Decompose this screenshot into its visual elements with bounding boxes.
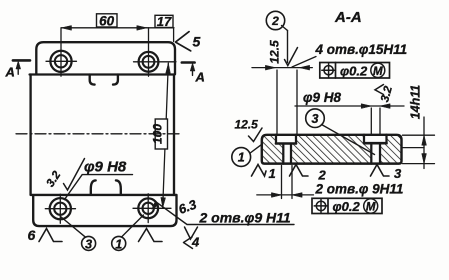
hole bottom-left xyxy=(50,198,71,219)
hole bottom-left crosshair xyxy=(45,194,75,223)
bottom slot right wall xyxy=(116,180,121,194)
svg-text:2: 2 xyxy=(271,14,279,28)
body top edge xyxy=(30,73,174,75)
svg-text:1: 1 xyxy=(238,151,245,165)
balloon 1 right view xyxy=(232,148,251,167)
svg-text:3: 3 xyxy=(394,166,402,181)
dimension 17 xyxy=(155,15,173,27)
section bar outline xyxy=(262,135,402,164)
section marker A left xyxy=(13,59,30,62)
bottom roughness checks right view xyxy=(252,165,267,177)
leader 2 otv phi9 H11 xyxy=(155,201,294,224)
mid extension line xyxy=(402,147,424,149)
dimension line phi15 xyxy=(252,67,312,69)
dimension 100 xyxy=(155,119,167,149)
svg-text:φ0.2: φ0.2 xyxy=(333,199,361,214)
svg-text:12.5: 12.5 xyxy=(268,40,282,64)
svg-text:6.3: 6.3 xyxy=(176,196,199,217)
top ear block xyxy=(36,42,175,74)
note 5 leader xyxy=(176,32,191,51)
svg-text:3.2: 3.2 xyxy=(379,84,395,103)
svg-text:3: 3 xyxy=(312,112,319,126)
svg-text:60: 60 xyxy=(99,13,115,28)
tolerance frame 1 xyxy=(320,63,390,79)
hole bottom-right xyxy=(138,198,158,218)
svg-text:4: 4 xyxy=(191,235,200,250)
svg-text:1: 1 xyxy=(115,237,122,251)
bottom slot left wall xyxy=(91,180,96,194)
section bar hatching xyxy=(262,135,402,164)
roughness check 3.2 right xyxy=(375,85,384,95)
svg-text:14h11: 14h11 xyxy=(409,85,423,120)
balloon 3 right view xyxy=(306,109,325,128)
callout phi9H8 left view xyxy=(65,175,133,200)
right counterbore xyxy=(364,135,387,143)
top slot left wall xyxy=(90,75,95,85)
check mark 4 xyxy=(184,237,193,249)
svg-text:A-A: A-A xyxy=(334,9,362,26)
hole top-right crosshair xyxy=(134,28,177,76)
balloon 1 left view xyxy=(112,236,126,250)
svg-text:M: M xyxy=(366,202,376,214)
balloon 3 left view xyxy=(82,236,96,250)
svg-text:17: 17 xyxy=(157,14,172,29)
body left edge xyxy=(29,75,31,195)
dimension 60 xyxy=(97,14,118,27)
svg-text:A: A xyxy=(195,70,205,85)
svg-text:2 отв.φ 9Н11: 2 отв.φ 9Н11 xyxy=(315,182,404,197)
balloon 2 xyxy=(266,11,284,29)
hole bottom-right crosshair xyxy=(133,194,171,223)
counterbore voids white xyxy=(277,134,295,143)
roughness check 3.2 left view xyxy=(64,159,85,191)
top slot right wall xyxy=(113,75,118,85)
extension lines phi9 xyxy=(371,108,380,135)
leader to 4 otv text xyxy=(292,57,316,68)
svg-text:φ9 H8: φ9 H8 xyxy=(84,159,127,176)
svg-text:A: A xyxy=(5,65,15,80)
hole top-left xyxy=(50,51,71,72)
svg-text:12.5: 12.5 xyxy=(235,118,259,132)
centerline xyxy=(16,133,179,135)
tolerance frame 2 xyxy=(312,198,382,213)
hole top-right xyxy=(139,52,159,72)
dimension line phi9 right view xyxy=(295,105,404,107)
extension lines phi15 xyxy=(277,70,297,135)
svg-text:3.2: 3.2 xyxy=(45,169,64,189)
svg-text:φ0.2: φ0.2 xyxy=(340,63,368,78)
bottom block xyxy=(31,195,177,226)
roughness checks bottom of left view xyxy=(39,229,62,242)
svg-text:M: M xyxy=(373,66,383,78)
body right edge xyxy=(173,75,175,196)
hole top-left crosshair xyxy=(46,28,77,76)
svg-text:2: 2 xyxy=(318,168,327,183)
svg-text:φ9 H8: φ9 H8 xyxy=(303,90,342,105)
svg-text:1: 1 xyxy=(269,166,276,181)
roughness 12.5 stem xyxy=(287,31,289,63)
svg-text:3: 3 xyxy=(85,237,92,251)
dimension 14h11 xyxy=(403,135,435,163)
svg-text:6: 6 xyxy=(28,227,36,243)
section marker A right xyxy=(182,61,195,64)
svg-text:4 отв.φ15H11: 4 отв.φ15H11 xyxy=(315,42,408,57)
svg-text:100: 100 xyxy=(150,124,164,144)
roughness 12.5 left check xyxy=(249,128,263,142)
svg-text:5: 5 xyxy=(193,34,201,50)
svg-text:2 отв.φ9 H11: 2 отв.φ9 H11 xyxy=(199,210,291,226)
dimension 2otv phi9H11 bottom xyxy=(282,166,293,199)
roughness check at leader bend xyxy=(185,227,198,239)
left counterbore xyxy=(276,135,296,144)
